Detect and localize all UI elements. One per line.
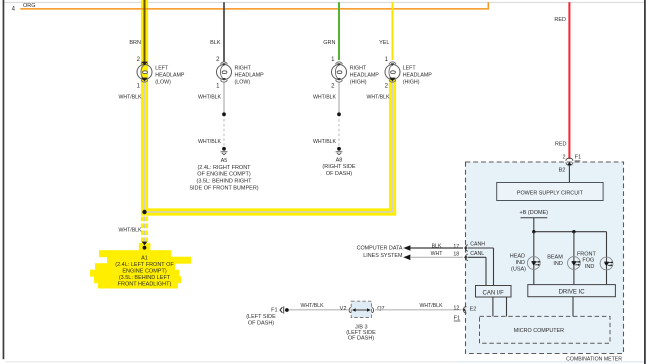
page border right — [644, 0, 646, 364]
svg-text:F1: F1 — [575, 155, 581, 161]
wire CAN I/F to micro computer left — [492, 297, 494, 316]
svg-text:FRONT: FRONT — [577, 252, 597, 258]
svg-text:WHT/BLK: WHT/BLK — [118, 95, 142, 101]
svg-text:A1: A1 — [141, 255, 148, 261]
svg-text:(USA): (USA) — [511, 267, 526, 273]
svg-text:BEAM: BEAM — [547, 255, 563, 261]
svg-text:FRONT HEADLIGHT): FRONT HEADLIGHT) — [118, 281, 172, 287]
wire highlight: left headlamp high down path x=392.5 — [389, 79, 396, 216]
svg-text:(LEFT SIDE: (LEFT SIDE — [246, 314, 276, 320]
svg-text:OF DASH): OF DASH) — [348, 336, 374, 342]
LED HEAD IND (USA) — [510, 232, 541, 285]
svg-text:CANH: CANH — [470, 241, 485, 247]
svg-text:WHT/BLK: WHT/BLK — [300, 303, 324, 309]
wire BRN (left headlamp low feed) — [144, 0, 146, 62]
svg-text:BRN: BRN — [129, 40, 141, 46]
wire WHT/BLK below right low lamp — [223, 82, 225, 147]
wire highlight: BRN/WHT-BLK left headlamp low path (vertical x=144.5) — [141, 0, 148, 245]
svg-text:RED: RED — [554, 17, 566, 23]
svg-text:Q7: Q7 — [377, 306, 384, 312]
svg-text:ENGINE COMPT): ENGINE COMPT) — [122, 268, 166, 274]
wire ORG horizontal — [20, 2, 488, 9]
svg-text:POWER SUPPLY CIRCUIT: POWER SUPPLY CIRCUIT — [517, 190, 584, 196]
node COMPUTER DATA LINES SYSTEM — [357, 245, 411, 260]
svg-text:F1: F1 — [454, 315, 460, 321]
svg-text:OF DASH): OF DASH) — [326, 171, 352, 177]
svg-text:ORG: ORG — [23, 3, 36, 9]
svg-text:HEADLAMP: HEADLAMP — [235, 72, 265, 78]
svg-text:CANL: CANL — [470, 251, 484, 257]
svg-text:(HIGH): (HIGH) — [403, 79, 420, 85]
svg-text:WHT/BLK: WHT/BLK — [118, 227, 142, 233]
svg-text:LEFT: LEFT — [155, 65, 169, 71]
lamp LEFT HEADLAMP (HIGH) — [385, 57, 433, 90]
junction dot rail-2 — [572, 230, 575, 233]
svg-text:F1: F1 — [271, 307, 277, 313]
wire CAN I/F to micro computer right — [506, 297, 508, 316]
wire CANH (BLK pin 17) — [410, 241, 494, 285]
box POWER SUPPLY CIRCUIT — [497, 183, 603, 201]
svg-text:2: 2 — [562, 155, 565, 161]
wire GRN (right headlamp high feed) — [338, 2, 340, 60]
svg-text:IND: IND — [585, 264, 595, 270]
svg-text:OF ENGINE COMPT): OF ENGINE COMPT) — [197, 172, 251, 178]
wire CANL (WHT pin 18) — [410, 251, 486, 286]
svg-text:WHT/BLK: WHT/BLK — [419, 303, 443, 309]
wire B2 to power supply circuit — [568, 166, 570, 183]
svg-text:18: 18 — [453, 252, 459, 258]
junction block J/B 3 — [340, 301, 385, 341]
svg-text:LEFT: LEFT — [403, 65, 417, 71]
svg-text:BLK: BLK — [210, 40, 221, 46]
wire WHT/BLK F1 to J/B 3 — [289, 309, 348, 311]
wire YEL (left headlamp high feed) — [392, 2, 394, 60]
svg-text:B2: B2 — [559, 167, 566, 173]
svg-text:(3.5L: BEHIND LEFT: (3.5L: BEHIND LEFT — [119, 275, 171, 281]
wire WHT/BLK below left low lamp — [144, 82, 146, 243]
svg-text:COMBINATION METER: COMBINATION METER — [566, 356, 622, 362]
junction dot rail-1 — [532, 230, 535, 233]
svg-text:GRN: GRN — [323, 40, 335, 46]
svg-text:(2.4L: LEFT FRONT OF: (2.4L: LEFT FRONT OF — [115, 262, 174, 268]
svg-text:WHT: WHT — [431, 251, 444, 257]
wire WHT/BLK below left high lamp — [392, 83, 394, 213]
svg-text:BLK: BLK — [432, 244, 442, 250]
connector E2 pin 12 — [453, 305, 476, 321]
svg-text:HEADLAMP: HEADLAMP — [350, 72, 380, 78]
page bottom rule — [5, 360, 460, 363]
page border left — [3, 0, 5, 359]
combination meter box — [466, 162, 624, 354]
box CAN I/F — [476, 286, 512, 298]
wire indicator rail — [534, 231, 607, 233]
wire +B to indicator rail — [533, 218, 535, 232]
wire WHT/BLK below right high lamp — [338, 82, 340, 147]
svg-text:(3.5L: BEHIND RIGHT: (3.5L: BEHIND RIGHT — [196, 178, 252, 184]
svg-text:HEADLAMP: HEADLAMP — [403, 72, 433, 78]
svg-text:COMPUTER DATA: COMPUTER DATA — [357, 245, 403, 251]
svg-text:+B (DOME): +B (DOME) — [520, 210, 549, 216]
svg-text:(RIGHT SIDE: (RIGHT SIDE — [322, 164, 356, 170]
ground A1 (highlighted) — [115, 242, 174, 288]
svg-text:(2.4L: RIGHT FRONT: (2.4L: RIGHT FRONT — [197, 165, 251, 171]
wire DRIVE IC to micro computer — [572, 297, 574, 317]
wire highlight: horizontal ground link y=212 — [141, 208, 396, 215]
highlight marker strokes over A1 ground text — [90, 250, 191, 288]
svg-text:CAN I/F: CAN I/F — [483, 290, 505, 296]
svg-text:WHT/BLK: WHT/BLK — [313, 95, 337, 101]
svg-text:WHT/BLK: WHT/BLK — [198, 139, 222, 145]
box MICRO COMPUTER — [480, 316, 611, 343]
svg-text:HEADLAMP: HEADLAMP — [155, 72, 185, 78]
splice dot A5 branch — [222, 112, 226, 116]
wire BLK (right headlamp low feed) — [223, 2, 225, 62]
svg-text:SIDE OF FRONT BUMPER): SIDE OF FRONT BUMPER) — [189, 185, 258, 191]
svg-text:DRIVE IC: DRIVE IC — [559, 290, 586, 296]
svg-text:RED: RED — [555, 141, 567, 147]
box DRIVE IC — [528, 285, 616, 297]
svg-text:WHT/BLK: WHT/BLK — [366, 95, 390, 101]
lamp RIGHT HEADLAMP (LOW) — [216, 57, 264, 90]
svg-text:OF DASH): OF DASH) — [248, 321, 274, 327]
ground A8 — [322, 147, 356, 177]
LED BEAM IND — [547, 232, 580, 285]
svg-text:WHT/BLK: WHT/BLK — [313, 139, 337, 145]
svg-text:17: 17 — [453, 244, 459, 250]
wire WHT/BLK J/B 3 to meter pin 12 — [375, 309, 462, 311]
connector B2 pin 2 F1 — [559, 155, 582, 174]
lamp LEFT HEADLAMP (LOW) — [137, 57, 185, 90]
node +B (DOME) — [520, 210, 549, 218]
ground A5 — [189, 147, 258, 191]
ground F1 (left side of dash) — [246, 306, 289, 326]
LED FRONT FOG IND — [577, 232, 613, 285]
svg-text:A8: A8 — [336, 157, 343, 163]
splice dot A8 branch — [337, 112, 341, 116]
svg-text:HEAD: HEAD — [510, 254, 525, 260]
svg-text:(HIGH): (HIGH) — [350, 79, 367, 85]
svg-text:LINES SYSTEM: LINES SYSTEM — [363, 253, 403, 259]
junction dot left ground link — [142, 210, 146, 214]
svg-text:A5: A5 — [221, 158, 228, 164]
svg-text:RIGHT: RIGHT — [350, 65, 367, 71]
svg-text:WHT/BLK: WHT/BLK — [198, 95, 222, 101]
svg-text:MICRO COMPUTER: MICRO COMPUTER — [514, 328, 564, 334]
lamp RIGHT HEADLAMP (HIGH) — [331, 57, 379, 90]
svg-text:FOG: FOG — [582, 258, 594, 264]
wire RED (meter feed) — [568, 2, 570, 159]
svg-text:IND: IND — [553, 261, 563, 267]
svg-text:E2: E2 — [470, 306, 477, 312]
svg-text:V2: V2 — [340, 306, 347, 312]
svg-text:RIGHT: RIGHT — [235, 65, 252, 71]
wire WHT/BLK horizontal ground link — [145, 211, 393, 213]
svg-text:(LOW): (LOW) — [235, 79, 251, 85]
svg-text:12: 12 — [453, 305, 459, 311]
page top rule — [4, 1, 644, 4]
svg-text:(LOW): (LOW) — [155, 79, 171, 85]
svg-text:IND: IND — [516, 260, 526, 266]
svg-text:YEL: YEL — [379, 40, 389, 46]
